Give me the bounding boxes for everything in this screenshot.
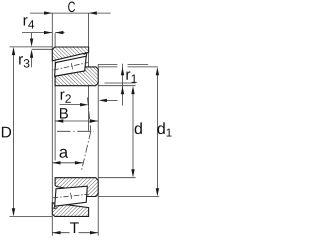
D dimension line	[13, 52, 15, 213]
r4 vertical arrow down to OD line	[31, 33, 33, 42]
svg-text:T: T	[70, 220, 80, 237]
line of action top	[88, 98, 91, 132]
a dimension line	[52, 162, 83, 164]
inner ring (cone) top with back rib	[55, 67, 98, 86]
svg-text:d: d	[134, 121, 143, 138]
svg-text:D: D	[1, 124, 12, 141]
r1 dimension vertical with two up arrows	[122, 64, 124, 106]
r1 chamfer line	[98, 66, 117, 68]
C left arrow	[44, 11, 52, 14]
r2 left-pointing arrow at cone back face	[104, 99, 118, 101]
roller top	[55, 56, 87, 76]
bore chamfer line top	[105, 82, 136, 84]
OD extension line bottom	[10, 216, 53, 218]
OD extension line top	[10, 46, 53, 48]
r3 line (chamfer)	[32, 48, 53, 50]
d dimension line	[132, 91, 134, 174]
outer ring (cup) top	[52, 47, 88, 61]
extension line cup back face (left, full height)	[51, 13, 53, 236]
roller center marks (drawn above rollers)	[53, 63, 89, 200]
roller axis bottom	[53, 194, 89, 198]
outer ring (cup) bottom	[52, 203, 88, 217]
r3 vertical arrow up to chamfer line	[31, 55, 33, 68]
roller bottom	[55, 186, 88, 206]
line of action bottom	[81, 131, 90, 171]
C dimension line	[30, 12, 111, 14]
T dimension line	[52, 232, 69, 234]
extension line cone back face (right, full height)	[97, 64, 99, 235]
r4 dimension lines	[22, 32, 52, 34]
d1 dimension line	[156, 72, 158, 193]
rib chamfer extension line bottom	[98, 196, 159, 198]
svg-text:B: B	[59, 105, 69, 122]
B dimension line	[55, 120, 98, 122]
bearing axis	[57, 130, 94, 132]
extension line cone front face	[54, 33, 56, 161]
roller axis top	[54, 63, 89, 71]
svg-text:a: a	[59, 144, 69, 162]
C right arrow	[89, 11, 97, 14]
svg-text:C: C	[68, 0, 76, 16]
bore extension line top	[98, 85, 135, 87]
rib OD extension line (with gap for r1 dim)	[98, 63, 117, 65]
inner ring (cone) bottom with back rib	[55, 178, 98, 197]
bore extension line bottom	[98, 177, 135, 179]
r2 leader line with right arrow	[60, 104, 85, 106]
extension line cup front face	[88, 13, 90, 131]
